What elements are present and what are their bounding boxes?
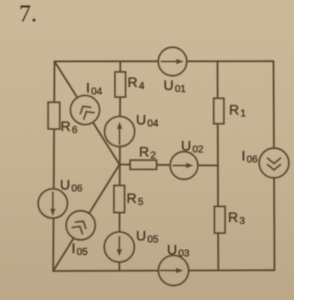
voltage source U03	[159, 256, 189, 286]
wire diagonal to I05	[53, 165, 119, 272]
current source I05	[66, 211, 95, 240]
wire branch R1-R3	[217, 61, 220, 270]
wire branch R4-U04-node-R5-U05	[119, 61, 120, 269]
arrow U04 (up)	[117, 122, 123, 146]
wire left	[53, 61, 54, 271]
voltage source U04	[105, 117, 135, 147]
arrow U03	[160, 268, 184, 273]
wire top	[55, 60, 274, 62]
resistor R5	[114, 186, 125, 213]
voltage source U01	[158, 47, 186, 75]
arrow U02	[173, 163, 194, 168]
resistor R3	[215, 207, 226, 234]
arrow U01	[161, 59, 184, 65]
chevrons I04 (pointing up-left)	[78, 103, 94, 119]
voltage source U05	[104, 232, 134, 262]
resistor R4	[115, 72, 126, 97]
resistor R6	[48, 102, 60, 129]
resistor R2	[130, 160, 156, 169]
arrow U06 (down)	[50, 192, 56, 217]
chevrons I05 (pointing up-right)	[72, 218, 88, 234]
resistor R1	[214, 98, 224, 123]
wire bottom	[53, 269, 274, 272]
voltage source U06	[38, 189, 67, 218]
wire diagonal to I04	[55, 61, 120, 164]
current source I06	[259, 148, 289, 178]
voltage source U02	[170, 152, 198, 180]
chevrons I06 (pointing down)	[268, 158, 281, 170]
arrow U05 (down)	[117, 236, 123, 257]
wire middle R2-U02	[120, 165, 218, 166]
current source I04	[71, 96, 100, 125]
wire right	[274, 61, 275, 270]
